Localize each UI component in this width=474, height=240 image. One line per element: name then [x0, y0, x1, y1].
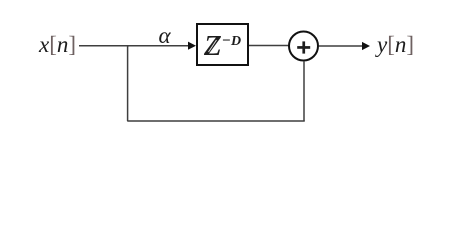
- wire: feedforward path right vertical into summer: [303, 61, 305, 121]
- value label Z^-D inside delay block: [203, 30, 241, 62]
- svg-text:−: −: [222, 33, 231, 49]
- wire: delay block to summer: [249, 45, 290, 47]
- arrowhead into delay block: [188, 42, 196, 50]
- summer (adder circle): [289, 32, 318, 61]
- plus sign inside summer: [297, 41, 310, 53]
- svg-text:α: α: [159, 23, 172, 48]
- node: branch junction on input line: [127, 45, 129, 47]
- wire: input line from x[n] to delay block: [79, 45, 190, 47]
- delay block Z^-D (rectangle): [197, 24, 248, 65]
- arrowhead at output y[n]: [362, 42, 370, 50]
- svg-text:y[n]: y[n]: [375, 32, 414, 57]
- wire: feedforward path left vertical (branch down): [127, 46, 129, 121]
- svg-text:x[n]: x[n]: [38, 32, 76, 57]
- wire: feedforward path bottom horizontal: [127, 120, 305, 122]
- wire: summer to output arrow: [319, 45, 364, 47]
- svg-text:D: D: [230, 34, 241, 49]
